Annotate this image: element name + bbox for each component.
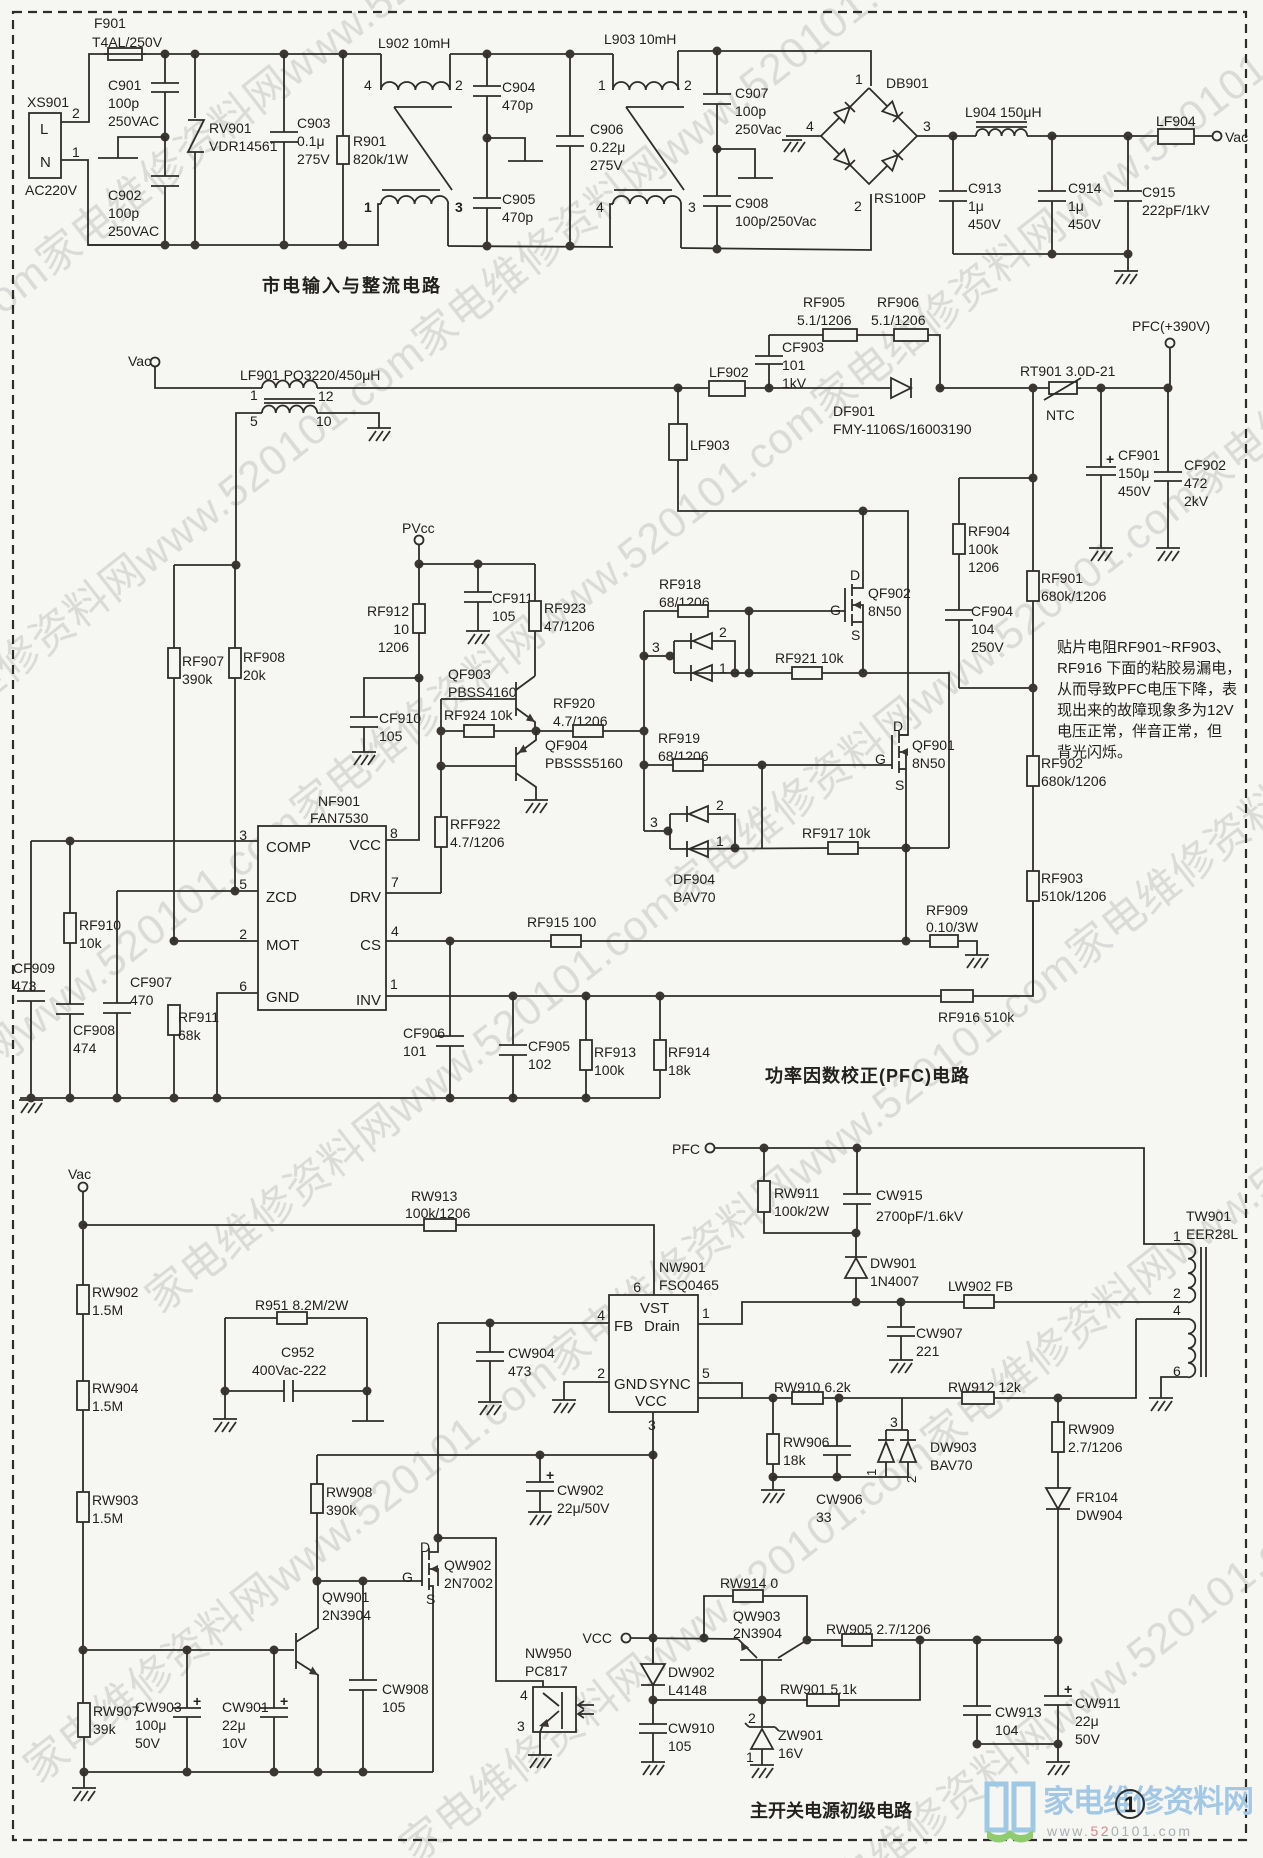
bottom rail left of L902 [88,244,378,246]
resistor RF912 [367,564,425,678]
gate line QW902 [317,1580,420,1582]
svg-text:RF909: RF909 [926,902,968,918]
node L904 output [1048,132,1057,141]
ground below CF901 [1089,548,1113,561]
wire RF905-RF906 [857,334,894,336]
wire L904 to LF904 [1052,135,1158,137]
wire VCC node to chip pin8 [386,678,419,840]
svg-text:RF916 下面的粘胶易漏电，: RF916 下面的粘胶易漏电， [1057,660,1241,677]
svg-text:1206: 1206 [378,639,409,655]
thermistor RT901 [1020,363,1116,423]
svg-text:贴片电阻RF901~RF903、: 贴片电阻RF901~RF903、 [1057,639,1231,656]
ground below CF902 [1156,548,1180,561]
DF903 diode upper [691,633,712,649]
svg-text:C901: C901 [108,77,142,93]
node rail GND pin [213,1094,222,1103]
svg-text:RW913: RW913 [411,1188,458,1204]
node CF911 top [474,560,483,569]
svg-text:NTC: NTC [1046,407,1075,423]
svg-text:474: 474 [73,1040,97,1056]
node CF904 bottom on chain [1029,684,1038,693]
svg-text:105: 105 [668,1738,692,1754]
GND pin wire [217,993,258,1098]
node RW906 [769,1394,778,1403]
svg-text:RF921 10k: RF921 10k [775,650,844,666]
svg-text:RF917 10k: RF917 10k [802,825,871,841]
svg-text:现出来的故障现象多为12V: 现出来的故障现象多为12V [1057,701,1234,719]
svg-text:CW907: CW907 [916,1325,963,1341]
svg-text:功率因数校正(PFC)电路: 功率因数校正(PFC)电路 [765,1065,970,1086]
node CW908 top [359,1577,368,1586]
svg-text:Vac: Vac [68,1166,91,1182]
svg-text:CF911: CF911 [492,590,533,606]
node bottom RV901 [191,241,200,250]
svg-text:TW901: TW901 [1186,1208,1231,1224]
svg-text:250Vac: 250Vac [735,121,781,137]
svg-text:100p: 100p [108,95,139,111]
node DF904 out [731,844,740,853]
svg-text:DF901: DF901 [833,403,875,419]
INV pin wire [386,995,941,997]
svg-text:22μ: 22μ [1075,1713,1099,1729]
svg-text:RW914 0: RW914 0 [720,1575,778,1591]
node RF904 branch on chain [1029,474,1038,483]
filter LF902 [678,364,891,396]
capacitor CW902 electrolytic [526,1455,610,1516]
svg-text:1206: 1206 [968,559,999,575]
terminal Vac output [1213,132,1222,141]
capacitor CW913 [963,1640,1042,1744]
bridge diode top-left [834,102,855,123]
node RF919/RF917 tie [758,761,767,770]
node CW913 bottom [973,1740,982,1749]
svg-text:FB: FB [614,1318,633,1335]
ground at bridge pin4 [782,140,805,152]
IC NF901 FAN7530 [239,793,399,1010]
node RW901 corner [916,1636,925,1645]
svg-text:QW903: QW903 [733,1608,781,1624]
svg-text:VCC: VCC [582,1630,612,1646]
transistor QW901 NPN [296,1581,371,1772]
svg-text:1: 1 [864,1469,879,1476]
svg-text:Vac: Vac [1225,129,1248,145]
bottom wire RW906-DW903 [773,1476,908,1478]
svg-text:10V: 10V [222,1735,248,1751]
svg-text:450V: 450V [1118,483,1151,499]
svg-text:100k: 100k [594,1062,625,1078]
node QF901 source [902,844,911,853]
svg-text:10k: 10k [79,935,103,951]
resistor RF917 [802,825,949,854]
svg-text:3: 3 [688,199,696,215]
svg-text:104: 104 [971,621,995,637]
node rail CW908 [359,1768,368,1777]
ground at GND pin [552,1400,576,1413]
chassis below C952 right [366,1391,368,1421]
node DF903/RF918 tie [745,669,754,678]
choke L902 winding 4-2 [364,54,463,93]
node INV/CF905 [509,992,518,1001]
node bottom C908 [713,245,722,254]
inductor LF901 core [264,399,315,403]
svg-text:473: 473 [13,978,37,994]
svg-text:473: 473 [508,1363,532,1379]
svg-text:G: G [402,1569,413,1585]
svg-text:CF907: CF907 [130,974,172,990]
resistor RF913 [580,996,636,1098]
base net QW901 [83,1649,294,1651]
node C952 left [221,1387,230,1396]
svg-text:L: L [40,121,48,138]
capacitor C905 [473,138,536,246]
svg-text:3: 3 [648,1417,656,1433]
capacitor CW915 [843,1148,964,1233]
ground below C915 [1127,254,1129,271]
svg-text:AC220V: AC220V [25,182,78,198]
wire LF903 to MOSFET drains [678,460,908,735]
node rail CF909 [27,1094,36,1103]
svg-text:20k: 20k [243,667,267,683]
svg-text:C902: C902 [108,187,142,203]
gate network QF902 : left vertical [643,611,645,831]
svg-text:CW915: CW915 [876,1187,923,1203]
wire branch RF904 horizontal [959,477,1033,479]
filter LF904 [1156,113,1196,144]
svg-text:Vac: Vac [128,353,151,369]
svg-text:电压正常，伴音正常，但: 电压正常，伴音正常，但 [1057,723,1222,740]
svg-text:5.1/1206: 5.1/1206 [797,312,852,328]
svg-text:5: 5 [702,1365,710,1381]
svg-text:RF912: RF912 [367,603,409,619]
svg-text:VCC: VCC [349,837,381,854]
node DF903 out [731,669,740,678]
choke L903 core [614,107,684,190]
svg-text:2N7002: 2N7002 [444,1575,493,1591]
svg-text:QF902: QF902 [868,585,911,601]
svg-text:1: 1 [702,1305,710,1321]
choke L902 winding 1-3 [364,196,463,246]
svg-text:C915: C915 [1142,184,1176,200]
capacitor C915 [1114,136,1210,254]
node QW902 drain [434,1534,443,1543]
node CW902 [536,1451,545,1460]
svg-text:DW902: DW902 [668,1664,715,1680]
svg-text:0.22μ: 0.22μ [590,139,625,155]
node driver output [532,727,541,736]
resistor RW909 [1052,1398,1123,1488]
svg-text:+: + [193,1693,201,1709]
wire QF904 base [441,765,516,767]
node CS/RF909/QF901 source [902,937,911,946]
wire Vac to LF901 [155,366,262,388]
svg-text:PC817: PC817 [525,1663,568,1679]
DF904 diode upper [687,806,708,822]
varistor RV901 [188,54,278,245]
resistor RW905 [807,1621,1058,1646]
resistor RW913 [83,1188,654,1295]
VCC wire [630,1638,738,1639]
wire RW901 line [653,1699,807,1701]
capacitor CW910 [639,1700,715,1762]
svg-text:RV901: RV901 [209,120,252,136]
svg-text:RW904: RW904 [92,1380,139,1396]
node divider/base [79,1646,88,1655]
svg-text:家电维修资料网: 家电维修资料网 [1043,1784,1253,1819]
svg-text:EER28L: EER28L [1186,1226,1238,1242]
bottom wire C913-C915 [953,253,1128,255]
wire RF918 node down [748,611,750,673]
capacitor CF902 [1154,388,1226,548]
node ZW901 top [758,1696,767,1705]
ground at rail left end [19,1100,43,1113]
svg-text:QF901: QF901 [912,737,955,753]
svg-text:RF918: RF918 [659,576,701,592]
ZCD pin wire [117,890,258,892]
inductor L904 [953,104,1052,136]
svg-text:4: 4 [391,923,399,939]
svg-text:510k/1206: 510k/1206 [1041,888,1107,904]
node CW907 [897,1298,906,1307]
svg-text:2: 2 [72,105,80,121]
snubber R951 [225,1297,367,1391]
resistor RF903 [1027,870,1107,996]
svg-text:LF904: LF904 [1156,113,1196,129]
node DF901 cathode [936,384,945,393]
svg-text:VCC: VCC [635,1393,667,1410]
svg-text:FR104: FR104 [1076,1489,1118,1505]
svg-text:390k: 390k [326,1502,357,1518]
resistor RW901 [780,1640,920,1706]
svg-text:+: + [546,1467,554,1483]
svg-text:2: 2 [719,624,727,640]
transformer TW901 primary 1-2 [1173,1228,1195,1302]
svg-text:105: 105 [379,728,403,744]
svg-text:CW901: CW901 [222,1699,269,1715]
svg-text:RFF922: RFF922 [450,816,501,832]
node VCC pin vertical [649,1451,658,1460]
dual diode DF903 [640,624,736,676]
svg-text:PBSSS5160: PBSSS5160 [545,755,623,771]
svg-text:1: 1 [746,1749,754,1765]
PVcc horizontal wire [419,563,535,565]
svg-text:INV: INV [356,992,381,1009]
DF904 diode lower [687,841,708,857]
node CW915 [853,1144,862,1153]
svg-text:CW910: CW910 [668,1720,715,1736]
MOSFET QW902 [402,1538,493,1772]
resistor RW903 [77,1492,139,1650]
svg-text:G: G [875,751,886,767]
capacitor C906 [556,54,625,246]
svg-text:XS901: XS901 [27,94,69,110]
svg-text:CF905: CF905 [528,1038,570,1054]
svg-text:C952: C952 [281,1344,315,1360]
svg-text:CF906: CF906 [403,1025,445,1041]
resistor RF901 [1027,570,1107,756]
svg-text:+: + [280,1693,288,1709]
capacitor CF911 [464,564,533,631]
svg-text:22μ: 22μ [222,1717,246,1733]
node INV/RF914 [656,992,665,1001]
ground at LF901 pin10 [367,428,391,441]
node CF902 [1164,384,1173,393]
bottom rail between chokes [448,246,613,247]
svg-text:GND: GND [266,989,300,1006]
capacitor CF904 [945,603,1033,688]
svg-text:4: 4 [806,118,814,134]
svg-text:8N50: 8N50 [868,603,902,619]
capacitor C904 [473,54,536,138]
svg-text:2: 2 [854,198,862,214]
capacitor CW907 [887,1302,963,1360]
node RW911 [760,1144,769,1153]
svg-text:101: 101 [782,357,806,373]
dual diode DF904 [644,797,735,905]
svg-text:CW904: CW904 [508,1345,555,1361]
svg-text:+: + [1064,1681,1072,1697]
node CS/CF906 [446,937,455,946]
svg-text:C907: C907 [735,85,769,101]
divider RF907/RF908 top wire [174,564,236,566]
svg-text:3: 3 [517,1718,525,1734]
svg-text:4: 4 [596,199,604,215]
wire RF906 down to rail [928,335,940,388]
rail RT901 to PFC output [1077,347,1170,388]
svg-text:100p: 100p [735,103,766,119]
svg-text:F901: F901 [94,15,126,31]
svg-text:10: 10 [393,621,409,637]
resistor R901 [337,54,409,245]
resistor RF909 [926,902,979,955]
node CW906 bottom [833,1473,842,1482]
svg-text:C903: C903 [297,115,331,131]
svg-text:2: 2 [455,77,463,93]
svg-text:7: 7 [391,874,399,890]
svg-text:101: 101 [403,1043,427,1059]
svg-text:1.5M: 1.5M [92,1510,123,1526]
svg-text:2: 2 [239,926,247,942]
resistor RF920 [536,695,644,737]
svg-text:2kV: 2kV [1184,493,1209,509]
PFC main rail Vac to LF902 [317,387,678,389]
node CF903 tap [765,384,774,393]
svg-text:RF913: RF913 [594,1044,636,1060]
svg-text:1N4007: 1N4007 [870,1273,919,1289]
svg-text:RF901: RF901 [1041,570,1083,586]
capacitor CF907 [103,891,172,1098]
svg-text:3: 3 [652,639,660,655]
svg-text:5: 5 [250,413,258,429]
resistor RF911 [168,1005,219,1098]
ground below CW907 [889,1360,913,1373]
svg-text:DW903: DW903 [930,1439,977,1455]
chassis stub at C901/C902 midpoint [118,137,165,158]
svg-text:50V: 50V [135,1735,161,1751]
wire TW901 pin4 down to sync net [698,1319,1136,1398]
svg-text:50V: 50V [1075,1731,1101,1747]
resistor RW904 [77,1380,139,1492]
svg-text:470p: 470p [502,209,533,225]
svg-text:47/1206: 47/1206 [544,618,595,634]
wire N pin down to bottom rail [61,160,165,245]
svg-text:CW906: CW906 [816,1491,863,1507]
svg-text:2.7/1206: 2.7/1206 [1068,1439,1123,1455]
svg-text:2: 2 [597,1365,605,1381]
resistor RFF922 [435,766,505,893]
wire bridge pin3 to L904 [917,135,953,137]
svg-text:100k/2W: 100k/2W [774,1203,830,1219]
VCC pin3 vertical [652,1412,654,1664]
svg-text:L904 150μH: L904 150μH [965,104,1042,120]
COMP pin wire [31,840,258,842]
wire opto pin3 to ground [539,1732,541,1755]
node RW906 bottom [769,1473,778,1482]
svg-text:RW903: RW903 [92,1492,139,1508]
svg-text:100k: 100k [968,541,999,557]
node rail CW901 [270,1768,279,1777]
capacitor CW903 electrolytic [135,1650,201,1772]
ground at TW901 pin6 [1149,1398,1173,1411]
wire bridge pin4 to ground [786,135,821,137]
bridge diode bottom-right [882,150,903,171]
svg-text:8N50: 8N50 [912,755,946,771]
svg-text:RW907: RW907 [93,1703,140,1719]
svg-text:L903 10mH: L903 10mH [604,31,676,47]
node rail CF906 [446,1094,455,1103]
capacitor CF901 electrolytic [1086,388,1160,548]
resistor RF924 [441,707,536,737]
svg-text:2: 2 [748,1710,756,1726]
ground below CF910 [352,752,376,765]
svg-text:C906: C906 [590,121,624,137]
svg-text:CF910: CF910 [379,710,421,726]
wire QF901 source to CS net [905,848,907,941]
DF903 diode lower [691,665,712,681]
ground below C952 left [224,1391,226,1419]
svg-text:2: 2 [904,1476,919,1483]
node rail QW901 emitter [314,1768,323,1777]
node rail RF913 [582,1094,591,1103]
svg-text:CF909: CF909 [13,960,55,976]
capacitor CF903 [755,335,824,391]
resistor RF918 [644,576,843,617]
wire L pin to fuse rail [61,54,108,122]
svg-text:ZW901: ZW901 [778,1727,823,1743]
capacitor C913 [939,136,1002,254]
node rail CW903 [183,1768,192,1777]
svg-text:RF904: RF904 [968,523,1010,539]
svg-text:背光闪烁。: 背光闪烁。 [1057,744,1132,761]
resistor RW914 [704,1575,807,1640]
ground below CW902 [528,1512,552,1525]
svg-text:1μ: 1μ [1068,198,1084,214]
svg-text:DRV: DRV [350,889,381,906]
svg-text:2N3904: 2N3904 [733,1625,782,1641]
capacitor C952 [225,1344,367,1402]
svg-text:1.5M: 1.5M [92,1398,123,1414]
svg-text:RF903: RF903 [1041,870,1083,886]
svg-text:221: 221 [916,1343,940,1359]
wire LF904 to Vac terminal [1194,135,1213,137]
svg-text:RF908: RF908 [243,649,285,665]
svg-text:R901: R901 [353,133,387,149]
wire Vac down divider chain [82,1191,84,1285]
svg-text:N: N [40,154,51,171]
svg-text:Drain: Drain [644,1318,680,1335]
node top RV901 [191,50,200,59]
svg-text:275V: 275V [590,157,623,173]
node CW906 top [835,1394,844,1403]
